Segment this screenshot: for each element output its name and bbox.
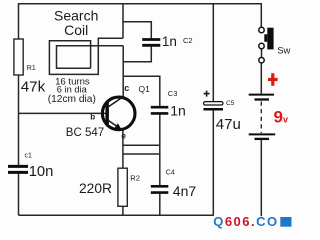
- resistor R1: [14, 39, 23, 75]
- capacitor C3: [151, 107, 169, 113]
- switch Sw terminal circle 2: [259, 43, 264, 48]
- svg-text:47u: 47u: [216, 116, 241, 133]
- wire left rail C1 to bottom bus: [18, 174, 20, 216]
- switch Sw terminal circle 1: [259, 27, 264, 32]
- wire switch to battery: [260, 63, 262, 94]
- svg-text:47k: 47k: [21, 79, 46, 96]
- wire jog lead A to outer turn: [98, 37, 123, 39]
- wire C3 bottom lead: [159, 115, 161, 146]
- transistor Q1 emitter stroke: [109, 121, 123, 131]
- svg-text:Search: Search: [54, 7, 98, 23]
- svg-text:Sw: Sw: [277, 45, 290, 56]
- wire top supply bus: [19, 3, 262, 5]
- transistor Q1 collector stroke: [109, 97, 124, 107]
- svg-text:c1: c1: [25, 153, 33, 160]
- svg-text:BC 547: BC 547: [66, 127, 104, 139]
- svg-text:C5: C5: [226, 100, 235, 107]
- wire C2 bottom to collector node: [123, 47, 151, 62]
- wire emitter jog upper: [123, 144, 160, 146]
- wire emitter jog lower: [123, 153, 160, 155]
- coil outer turn: [49, 38, 98, 75]
- capacitor C5 negative plate: [204, 108, 224, 111]
- wire collector to C3 branch: [123, 76, 160, 106]
- svg-text:R1: R1: [27, 65, 36, 72]
- battery B1 cell2 short plate: [255, 138, 270, 140]
- capacitor C1: [8, 166, 28, 172]
- wire right rail to switch: [260, 3, 262, 27]
- wire coil lead A vertical from top bus: [122, 4, 124, 38]
- transistor Q1 emitter arrow: [114, 123, 121, 129]
- wire C5 bottom lead: [212, 110, 214, 215]
- wire C4 bottom lead: [159, 194, 161, 215]
- svg-text:C3: C3: [168, 89, 178, 98]
- search coil label box: [37, 4, 39, 36]
- transistor Q1 base bar: [105, 103, 109, 125]
- wire left rail upper: [18, 3, 20, 39]
- label plus C5: [204, 93, 210, 95]
- capacitor C4: [151, 186, 169, 192]
- coil inner turn: [57, 46, 124, 68]
- switch Sw plunger bar: [267, 28, 273, 50]
- wire C4 top lead: [159, 145, 161, 185]
- capacitor C5 electrolytic positive plate: [204, 102, 224, 105]
- battery B1 cell1 short plate: [255, 98, 270, 100]
- wire left rail R1-to-base junction: [18, 75, 20, 165]
- battery B1 cell1 long plate: [249, 94, 274, 96]
- svg-text:C4: C4: [166, 170, 175, 177]
- capacitor C2: [142, 40, 160, 46]
- svg-text:e: e: [121, 130, 126, 140]
- wire branch to C2 top: [123, 22, 151, 39]
- svg-text:4n7: 4n7: [173, 183, 197, 199]
- resistor R2: [118, 168, 127, 206]
- battery B1 cell2 long plate: [249, 133, 276, 135]
- wire battery to bottom bus: [260, 140, 262, 216]
- wire base wire: [19, 112, 107, 114]
- svg-text:Q1: Q1: [139, 84, 151, 94]
- wire emitter vertical: [122, 130, 124, 168]
- wire R2 bottom lead: [122, 206, 124, 215]
- svg-text:Coil: Coil: [64, 22, 88, 38]
- wire bottom ground bus: [19, 214, 214, 216]
- label battery plus: [268, 78, 278, 81]
- svg-text:1n: 1n: [162, 34, 177, 49]
- wire collector lead B vertical: [122, 46, 124, 97]
- transistor Q1 circle: [102, 97, 135, 130]
- svg-text:220R: 220R: [79, 181, 112, 196]
- svg-text:C2: C2: [183, 36, 193, 45]
- wire switch middle link: [261, 49, 263, 58]
- watermark block M: [280, 217, 291, 227]
- svg-text:Q606.CO: Q606.CO: [213, 214, 278, 229]
- svg-text:(12cm dia): (12cm dia): [48, 94, 96, 105]
- svg-text:1n: 1n: [170, 103, 186, 119]
- battery B1 dashed link: [260, 102, 262, 134]
- switch Sw terminal circle 3: [259, 58, 264, 63]
- svg-text:b: b: [90, 112, 95, 121]
- wire C5 top lead: [212, 4, 214, 102]
- svg-text:c: c: [124, 83, 129, 93]
- svg-text:R2: R2: [130, 174, 140, 183]
- svg-text:10n: 10n: [29, 164, 54, 180]
- switch Sw plunger nub: [264, 34, 267, 42]
